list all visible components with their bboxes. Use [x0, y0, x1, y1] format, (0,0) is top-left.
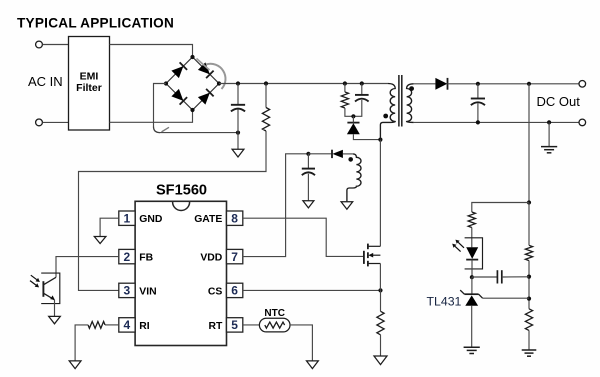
wire opto branch from divider node: [472, 203, 529, 213]
wire GATE pin to MOSFET gate: [243, 218, 363, 256]
diode snubber clamp: [347, 123, 360, 135]
IC pin-1 notch: [173, 202, 190, 211]
wire bulk cap bottom lead: [237, 110, 239, 133]
svg-text:2: 2: [124, 250, 131, 264]
thermistor NTC body: [259, 318, 290, 332]
pin 6 box: [227, 283, 243, 297]
junction TL431 cathode node: [470, 275, 474, 279]
wire startup resistor top lead: [265, 84, 267, 108]
ground primary (bridge): [232, 149, 244, 157]
wire resistor to opto LED: [471, 228, 473, 248]
wire TL431 reference to divider: [483, 297, 529, 299]
ground sense resistor: [374, 356, 387, 365]
wire VDD pin to VDD node: [243, 154, 309, 257]
capacitor bulk electrolytic: [231, 105, 245, 112]
svg-text:FB: FB: [139, 253, 153, 264]
wire hop corner to ground bus: [154, 127, 161, 133]
ground VDD capacitor: [303, 201, 314, 208]
svg-text:SF1560: SF1560: [156, 183, 207, 199]
svg-text:CS: CS: [208, 286, 223, 297]
svg-text:1: 1: [124, 212, 131, 226]
junction bulk cap negative: [236, 131, 240, 135]
svg-text:5: 5: [231, 318, 238, 332]
wire EMI bottom output to bridge AC2: [110, 110, 193, 122]
wire CS node to sense resistor: [380, 290, 382, 311]
svg-text:3: 3: [124, 284, 131, 298]
transformer T1 primary winding: [380, 84, 395, 140]
junction current sense node: [378, 288, 382, 292]
wire RI resistor to ground: [75, 325, 88, 361]
junction bridge positive (right vertex): [217, 81, 221, 85]
junction snubber capacitor tap: [360, 81, 364, 85]
wire snubber cap bottom lead: [353, 100, 361, 116]
wire VDD cap to ground: [307, 174, 309, 201]
wire output cap bottom lead: [477, 103, 479, 122]
wire rectified DC bus rail: [219, 83, 388, 85]
svg-text:8: 8: [231, 212, 238, 226]
wire snubber resistor bottom lead: [345, 108, 354, 116]
resistor snubber: [341, 92, 348, 108]
capacitor compensation: [497, 270, 501, 283]
wire secondary ground stem: [548, 122, 550, 146]
wire CS pin to sense node: [243, 289, 381, 291]
AC input terminal (neutral, bottom): [36, 119, 43, 126]
wire GND pin to ground: [100, 218, 119, 236]
diode output rectifier: [435, 78, 447, 90]
wire bulk cap top lead: [237, 84, 239, 105]
resistor startup (HV to VIN): [262, 108, 269, 132]
ground TL431 (earth): [464, 347, 480, 353]
EMI filter block: [69, 37, 110, 131]
wire output cap top lead: [477, 84, 479, 98]
ground NTC: [307, 361, 319, 369]
junction bridge AC2 (bottom vertex): [190, 108, 194, 112]
junction VDD node: [306, 152, 310, 156]
resistor RI timing: [88, 322, 105, 329]
opto light arrow into base 2: [30, 281, 39, 288]
optocoupler LED: [466, 247, 478, 259]
wire AC line to EMI filter: [43, 44, 69, 46]
junction startup resistor tap: [264, 81, 268, 85]
optocoupler phototransistor enclosure (open left): [41, 273, 60, 304]
AC input terminal (line, top): [36, 41, 43, 48]
junction feedback divider tap: [527, 82, 531, 86]
bridge diode D3 (upper-right): [198, 62, 214, 78]
wire VDD cap top lead: [307, 154, 309, 168]
pin 8 box: [227, 211, 243, 225]
aux winding polarity dot: [348, 157, 353, 162]
bridge diode D4 (lower-right): [198, 89, 214, 105]
resistor opto LED series: [468, 212, 475, 228]
svg-text:VIN: VIN: [139, 286, 156, 297]
wire startup resistor to VIN pin: [79, 131, 267, 290]
IC U1 SF1560 body: [135, 201, 226, 345]
ground RI resistor: [69, 361, 81, 369]
junction secondary ground tap: [547, 120, 551, 124]
wire snubber diode anode to drain node: [353, 134, 380, 139]
pin 1 box: [119, 211, 135, 225]
svg-text:4: 4: [124, 318, 131, 332]
junction bridge negative (left vertex): [164, 81, 168, 85]
resistor divider lower: [525, 309, 532, 331]
wire MOSFET drain lead: [379, 140, 381, 247]
svg-text:TYPICAL APPLICATION: TYPICAL APPLICATION: [17, 16, 174, 31]
opto light arrow into base 1: [31, 275, 40, 282]
wire FB pin to optocoupler collector: [56, 257, 119, 278]
ground secondary (earth): [541, 147, 557, 153]
shunt regulator TL431: [460, 290, 482, 306]
wire RI pin to resistor: [105, 324, 119, 326]
wire comp cap left lead: [472, 276, 497, 278]
scan artifact grey arc near bridge right vertex: [206, 64, 225, 89]
transformer core: [399, 75, 402, 127]
svg-text:VDD: VDD: [200, 253, 222, 264]
wire TL431 cathode stem: [471, 277, 473, 294]
wire bridge negative down: [154, 84, 167, 127]
junction compensation cap node: [527, 275, 531, 279]
opto LED light arrow 1: [455, 240, 464, 248]
wire divider bottom stem: [528, 330, 530, 349]
wire secondary to output diode: [414, 83, 436, 85]
junction bulk cap positive: [236, 81, 240, 85]
pin 7 box: [227, 249, 243, 263]
wire aux diode anode to winding: [343, 153, 353, 155]
junction drain / snubber node: [378, 138, 382, 142]
junction bridge AC1 (top vertex): [190, 55, 194, 59]
wire snubber resistor top lead: [344, 84, 346, 93]
junction output cap negative: [476, 120, 480, 124]
wire output return rail: [414, 121, 579, 123]
wire opto LED cathode lead: [471, 260, 473, 278]
DC output terminal (positive): [579, 81, 586, 88]
pin 3 box: [119, 283, 135, 297]
wire divider tap down: [528, 84, 530, 203]
wire opto emitter to ground: [54, 300, 56, 316]
thermistor NTC element: [265, 322, 285, 328]
wire divider mid segment: [528, 261, 530, 309]
transistor Q1 MOSFET: [364, 244, 381, 267]
wire AC neutral to EMI filter: [43, 121, 69, 123]
bridge diode D1 (lower-left): [171, 89, 187, 105]
pin 5 box: [227, 318, 243, 332]
ground divider (earth): [522, 350, 537, 356]
ground aux winding: [341, 202, 353, 209]
wire TL431 anode stem: [471, 306, 473, 347]
svg-text:Filter: Filter: [76, 82, 102, 94]
svg-text:RT: RT: [208, 321, 223, 332]
wire MOSFET source to CS node: [379, 264, 381, 291]
ground opto emitter: [49, 316, 61, 323]
pin 2 box: [119, 249, 135, 263]
DC output terminal (return): [579, 119, 586, 126]
svg-text:RI: RI: [139, 321, 150, 332]
junction TL431 reference node: [527, 297, 531, 301]
scan artifact grey stroke on upper-right diode: [197, 59, 210, 71]
svg-text:TL431: TL431: [427, 295, 462, 309]
junction snubber resistor tap: [343, 81, 347, 85]
ground IC GND pin: [94, 237, 106, 244]
wire comp cap right lead: [502, 276, 529, 278]
capacitor output electrolytic: [471, 99, 485, 106]
opto LED light arrow 2: [452, 244, 460, 252]
svg-text:6: 6: [231, 284, 238, 298]
svg-text:GATE: GATE: [194, 214, 222, 225]
capacitor snubber: [355, 95, 369, 102]
wire sense resistor to ground: [380, 335, 382, 356]
transformer primary polarity dot: [383, 114, 388, 119]
wire output positive rail: [448, 83, 580, 85]
wire snubber cap top lead: [361, 84, 363, 95]
bridge rectifier diamond: [166, 57, 219, 110]
wire negative ground bus: [160, 132, 239, 134]
wire EMI top output to bridge AC1: [110, 45, 193, 58]
transformer T1 secondary winding: [407, 84, 414, 123]
bridge diode D2 (upper-left): [171, 62, 187, 78]
svg-text:GND: GND: [139, 214, 163, 225]
junction output cap positive: [476, 82, 480, 86]
pin 4 box: [119, 318, 135, 332]
wire VDD node to aux diode: [308, 153, 331, 155]
svg-text:AC IN: AC IN: [28, 74, 63, 89]
optocoupler LED enclosure (open left): [465, 238, 483, 269]
wire RT pin to NTC: [243, 324, 260, 326]
svg-text:7: 7: [231, 250, 238, 264]
transformer auxiliary winding: [347, 154, 361, 202]
svg-text:DC Out: DC Out: [537, 94, 581, 109]
wire to upper divider resistor: [528, 203, 530, 246]
resistor divider upper: [525, 245, 532, 260]
scan artifact hop tail: [162, 127, 170, 132]
optocoupler phototransistor: [43, 277, 56, 300]
svg-text:NTC: NTC: [264, 308, 285, 319]
junction divider / opto branch: [527, 200, 531, 204]
diode VDD supply (aux rectifier): [332, 150, 343, 158]
capacitor VDD electrolytic: [302, 169, 315, 176]
junction snubber RC node: [351, 114, 355, 118]
wire snubber diode cathode lead: [352, 116, 354, 122]
wire to primary ground: [237, 133, 239, 150]
wire NTC to ground: [290, 325, 312, 361]
svg-text:EMI: EMI: [80, 71, 99, 83]
resistor current sense: [377, 311, 384, 335]
transformer secondary polarity dot: [409, 86, 414, 91]
